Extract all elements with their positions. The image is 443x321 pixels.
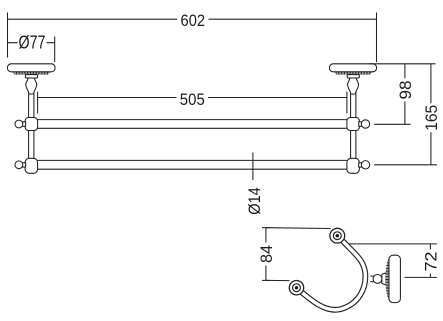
node: hook wall plate face (side view) [389, 255, 400, 302]
wire: 84 dimension line [265, 228, 267, 281]
hook stem collar [382, 273, 386, 285]
svg-text:602: 602 [181, 11, 206, 30]
wire: dia77 dimension line [8, 42, 55, 44]
wire: right post [351, 90, 356, 171]
node: right mount block bar2 [347, 158, 360, 173]
label dia14 (rotated) [245, 187, 264, 215]
wire: 602 right extension line [376, 13, 378, 63]
wire: 98 dimension line [404, 64, 406, 125]
node: right collar ring [347, 75, 359, 78]
node: left plate knurled rim [13, 72, 50, 75]
label 165 (rotated) [422, 103, 441, 132]
node: right baluster stem [348, 78, 359, 94]
node: left wall plate (top view) [8, 64, 56, 72]
node: left baluster stem [26, 78, 37, 94]
hook C-shaped body [297, 236, 366, 310]
node: left mount block bar1 [25, 118, 37, 131]
node: left mount block bar2 [25, 158, 37, 173]
wire: 98 bottom extension from knob [374, 123, 410, 125]
wire: 72 top extension from hook ball [344, 243, 437, 245]
svg-text:505: 505 [180, 90, 205, 109]
wire: towel bar 1 (top rail) [38, 120, 347, 129]
svg-text:Ø14: Ø14 [245, 187, 264, 215]
label 602 [177, 11, 209, 30]
hook stem neck [370, 276, 374, 282]
wire: left post [29, 90, 34, 171]
wire: 98-165 top extension line from right plate [369, 63, 436, 65]
node: right wall plate (top view) [330, 64, 377, 72]
label 84 (rotated) [257, 243, 276, 266]
wire: towel bar 2 (bottom rail) [38, 160, 347, 169]
label 72 (rotated) [421, 250, 440, 274]
wire: 84 top extension to hook ball [266, 227, 331, 230]
wire: 84 top tick [262, 227, 270, 229]
label 505 [177, 90, 209, 109]
node: right plate knurled rim [335, 72, 372, 75]
wire: 505 right extension line [346, 92, 348, 114]
node: hook plate knurl hatching [385, 257, 389, 300]
hook stem ball [373, 275, 382, 284]
node: hook top ball [330, 228, 345, 243]
node: left finial knob bar2 [15, 161, 26, 169]
node: right mount block bar1 [347, 118, 360, 131]
node: left collar ring [25, 75, 37, 78]
node: hook wall plate knurled rim (side view) [385, 256, 389, 301]
node: hook bottom ball [289, 281, 303, 295]
wire: 72 bottom extension from plate axis [405, 276, 437, 278]
wire: 505 dimension line [38, 97, 347, 99]
node: right finial knob bar2 [359, 161, 370, 169]
wire: dia77 right extension tick [54, 37, 56, 63]
wire: 165 bottom extension from knob [374, 164, 437, 166]
svg-text:98: 98 [396, 81, 415, 100]
wire: 602 left extension line [7, 13, 9, 58]
label 98 (rotated) [396, 78, 415, 101]
node: right finial knob bar1 [359, 120, 370, 128]
wire: 72 dimension line [429, 244, 431, 278]
label dia77 [18, 33, 47, 53]
wire: 84 bottom tick [262, 279, 270, 281]
svg-text:84: 84 [257, 245, 276, 263]
svg-text:Ø77: Ø77 [19, 33, 46, 53]
wire: 505 left extension line [37, 92, 39, 114]
svg-text:165: 165 [422, 105, 441, 131]
wire: dia14 leader line [252, 153, 254, 181]
wire: 84 bottom extension to hook ball [266, 279, 290, 281]
node: left finial knob bar1 [15, 120, 26, 128]
node: left plate knurl hatching [14, 72, 48, 74]
wire: 165 dimension line [430, 64, 432, 165]
svg-text:72: 72 [421, 252, 440, 272]
node: right plate knurl hatching [336, 72, 370, 74]
wire: 602 dimension line [8, 18, 377, 20]
